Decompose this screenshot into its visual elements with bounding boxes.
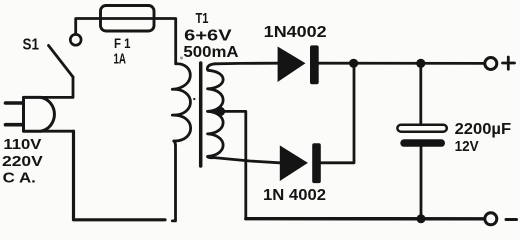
wire plug bottom to corner [41,130,74,133]
wire bottom-left rail [74,131,166,220]
terminal - circle [485,213,497,225]
wire capacitor bottom lead [420,147,423,219]
plus sign [503,57,515,69]
transformer T1 secondary winding [207,64,223,158]
svg-text:2200µF: 2200µF [455,121,512,138]
fuse F1 body [101,6,155,32]
wire bottom rail to minus terminal [246,217,485,221]
svg-text:F 1: F 1 [114,35,131,51]
diode D1 triangle [278,47,306,83]
wire center tap stub [208,110,221,113]
svg-text:110V: 110V [3,136,41,153]
wire D2 cathode right then up to top rail [321,63,354,163]
svg-text:500mA: 500mA [183,44,238,61]
terminal + circle [485,58,497,70]
svg-text:C A.: C A. [3,170,36,187]
plug P1 body [24,97,55,131]
wire capacitor top lead [419,63,422,125]
capacitor C1 bottom plate (solid) [400,139,445,147]
diode D2 triangle [280,145,308,181]
svg-text:1N 4002: 1N 4002 [263,187,326,204]
svg-text:S1: S1 [23,37,40,54]
plug P1 prong lower [6,123,23,127]
diode D1 cathode bar [310,45,319,84]
node junction D2-to-rail [349,59,358,68]
wire primary bottom down to left loop [172,141,175,221]
switch S1 lever [49,46,74,78]
wire plug top to switch [41,77,73,97]
node junction capacitor bottom [417,214,426,223]
wire secondary top to diode D1 [215,62,278,65]
faint speck left of 500mA [180,57,183,60]
transformer T1 primary winding [172,64,190,141]
wire switch contact to fuse line [76,19,100,35]
switch S1 contact circle [70,34,81,45]
capacitor C1 top plate (outline) [397,125,446,132]
minus sign [506,218,517,221]
wire D1 cathode to plus terminal [319,62,485,65]
node center tap junction [216,107,225,116]
svg-text:12V: 12V [455,138,479,155]
svg-text:T1: T1 [196,11,209,27]
ink speck near core [193,98,195,100]
wire center tap to down corner [221,111,246,218]
svg-text:220V: 220V [2,153,43,170]
plug P1 prong upper [6,101,23,105]
svg-text:6+6V: 6+6V [184,27,232,44]
svg-text:1A: 1A [114,51,127,68]
wire secondary bottom to diode D2 [214,158,280,163]
svg-text:1N4002: 1N4002 [264,24,327,41]
diode D2 cathode bar [312,143,321,183]
node junction capacitor top [416,59,425,68]
wire through fuse to transformer primary top [100,19,176,64]
transformer T1 core [199,63,203,166]
